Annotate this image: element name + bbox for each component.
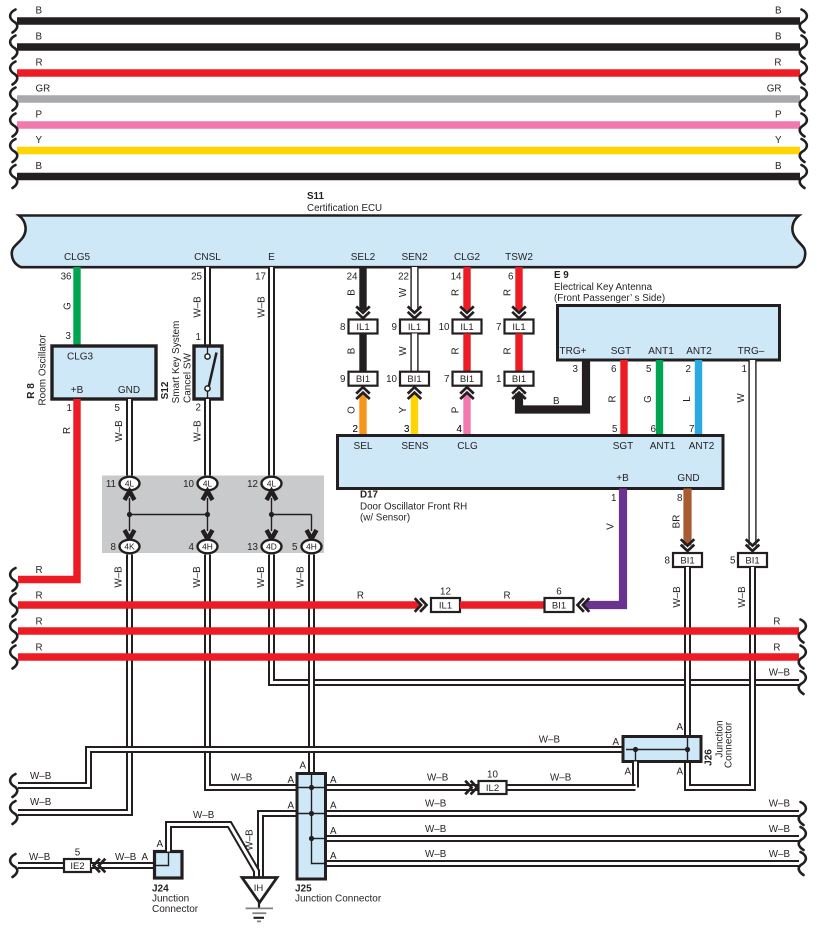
svg-text:ANT2: ANT2 — [689, 441, 715, 452]
svg-text:W–B: W–B — [193, 810, 215, 821]
svg-text:5: 5 — [115, 403, 121, 414]
harness wire B y176 — [10, 161, 807, 188]
svg-text:5: 5 — [730, 556, 736, 567]
J26 top A label — [676, 722, 683, 733]
wire R left edge to IL1 (12) — [10, 591, 426, 617]
J25 top A label — [299, 761, 306, 772]
svg-text:5: 5 — [646, 364, 652, 375]
connector IL1 pin 9 — [392, 320, 429, 334]
svg-text:4H: 4H — [202, 542, 213, 552]
svg-text:10: 10 — [487, 770, 498, 781]
J24 internal wire — [155, 852, 169, 866]
svg-text:Electrical Key Antenna: Electrical Key Antenna — [554, 282, 653, 293]
svg-text:W–B: W–B — [425, 849, 447, 860]
connector BI1 pin 5 — [730, 553, 767, 567]
svg-text:BI1: BI1 — [460, 374, 474, 385]
svg-text:W–B: W–B — [30, 797, 52, 808]
svg-text:1: 1 — [196, 332, 201, 343]
wire W-B 4D to right edge — [256, 555, 806, 695]
svg-text:Junction Connector: Junction Connector — [295, 894, 382, 905]
svg-text:7: 7 — [689, 424, 694, 435]
svg-text:V: V — [606, 523, 617, 530]
svg-text:P: P — [775, 110, 782, 121]
svg-text:4K: 4K — [124, 542, 135, 552]
svg-text:CLG: CLG — [457, 441, 478, 452]
J26 Junction Connector box — [623, 720, 735, 768]
svg-text:9: 9 — [392, 322, 397, 333]
wire R full width y631 — [10, 617, 806, 643]
E9 pin ANT1 (5) — [646, 346, 674, 375]
svg-text:ANT2: ANT2 — [686, 346, 712, 357]
J26 bottom2 A label — [676, 767, 683, 778]
svg-text:11: 11 — [106, 479, 116, 490]
svg-text:W–B: W–B — [114, 566, 125, 588]
svg-text:W–B: W–B — [192, 566, 203, 588]
connector IL1 pin 12 — [431, 587, 460, 613]
svg-text:1: 1 — [496, 374, 501, 385]
D17 pin ANT2 (7) — [689, 424, 715, 452]
svg-text:R: R — [503, 591, 510, 602]
svg-text:4: 4 — [457, 424, 463, 435]
svg-text:W–B: W–B — [427, 773, 449, 784]
D17 pin SGT (5) — [612, 424, 633, 452]
svg-text:BI1: BI1 — [680, 555, 694, 566]
wire W-B J25 row2 to right edge — [326, 799, 806, 826]
harness wire R y73 — [10, 58, 807, 85]
wire R from IL1 to BI1 — [451, 334, 468, 373]
svg-text:R: R — [36, 591, 43, 602]
wire G CLG5 to R8 — [63, 267, 78, 346]
svg-text:IE2: IE2 — [70, 861, 84, 872]
svg-text:IL1: IL1 — [439, 600, 452, 611]
wire W-B 4H(5) to J25 top — [296, 555, 312, 774]
svg-text:A: A — [330, 851, 337, 862]
svg-text:6: 6 — [556, 587, 562, 598]
svg-text:P: P — [36, 110, 43, 121]
svg-text:E 9: E 9 — [554, 270, 569, 281]
wire W-B S12 to 4L junction — [193, 399, 208, 476]
junction connector 4D pin 13 — [247, 530, 281, 553]
svg-text:3: 3 — [573, 364, 579, 375]
svg-text:W–B: W–B — [296, 566, 307, 588]
svg-text:SENS: SENS — [401, 441, 429, 452]
svg-text:W–B: W–B — [737, 586, 748, 608]
svg-text:B: B — [775, 32, 782, 43]
svg-text:W–B: W–B — [193, 296, 204, 318]
wire W-B BI1(8) to J26 top — [672, 567, 688, 737]
svg-text:BI1: BI1 — [512, 374, 526, 385]
svg-text:R: R — [357, 591, 364, 602]
R8 pin 1 (+B) — [67, 403, 72, 414]
junction block (gray) — [102, 476, 324, 554]
svg-text:3: 3 — [66, 331, 72, 342]
harness wire P y125 — [10, 110, 807, 137]
wire R IL1 to BI1 (6) — [460, 591, 545, 606]
S12 pin 2 — [196, 403, 201, 414]
svg-text:1: 1 — [611, 493, 616, 504]
svg-text:5: 5 — [292, 542, 298, 553]
svg-text:8: 8 — [340, 322, 346, 333]
harness wire B y47 — [10, 32, 807, 59]
wire W from IL1 to BI1 — [398, 334, 415, 372]
R8 pin 3 (CLG3) — [66, 331, 72, 342]
svg-text:A: A — [676, 767, 683, 778]
svg-text:8: 8 — [677, 493, 683, 504]
svg-text:W–B: W–B — [539, 735, 561, 746]
junction connector 4H pin 4 — [189, 530, 218, 553]
svg-text:12: 12 — [247, 479, 258, 490]
svg-text:17: 17 — [255, 272, 266, 283]
svg-text:CLG2: CLG2 — [454, 252, 481, 263]
svg-text:1: 1 — [67, 403, 72, 414]
wire R from R8 +B to left edge — [10, 399, 77, 591]
wire R from IL1 to BI1 — [503, 334, 520, 373]
svg-text:R: R — [773, 617, 780, 628]
svg-text:W–B: W–B — [231, 773, 253, 784]
svg-text:TRG+: TRG+ — [560, 346, 587, 357]
svg-text:B: B — [347, 289, 358, 296]
svg-text:BR: BR — [672, 515, 683, 529]
svg-text:8: 8 — [111, 542, 117, 553]
svg-text:SGT: SGT — [613, 441, 634, 452]
chevron into BI1 pin 5 — [746, 539, 760, 551]
svg-text:B: B — [553, 396, 560, 407]
svg-text:IL1: IL1 — [460, 322, 473, 333]
wire W from S11 to IL1 — [398, 267, 421, 318]
svg-text:W–B: W–B — [425, 824, 447, 835]
D17 pin GND (8) — [677, 473, 700, 504]
wire W-B 4K to left edge (bottom) — [10, 555, 129, 825]
svg-text:W–B: W–B — [30, 771, 52, 782]
connector IE2 pin 5 — [64, 848, 91, 873]
S12 pin 1 — [196, 332, 201, 343]
svg-text:P: P — [451, 406, 462, 413]
svg-text:Connector: Connector — [152, 904, 199, 915]
wire W-B left edge to J26 — [10, 735, 622, 798]
svg-text:A: A — [612, 737, 619, 748]
svg-text:G: G — [643, 395, 654, 403]
svg-text:5: 5 — [612, 424, 618, 435]
svg-text:W–B: W–B — [257, 296, 268, 318]
connector IL1 pin 10 — [439, 320, 482, 334]
svg-text:+B: +B — [616, 473, 629, 484]
wire W-B J25 row2 left to IH ground — [245, 801, 298, 878]
svg-text:A: A — [299, 761, 306, 772]
svg-text:TSW2: TSW2 — [505, 252, 533, 263]
svg-text:A: A — [287, 775, 294, 786]
svg-text:G: G — [63, 302, 74, 310]
svg-text:S11: S11 — [307, 191, 324, 202]
svg-text:CLG3: CLG3 — [67, 352, 94, 363]
svg-text:14: 14 — [451, 272, 462, 283]
svg-text:10: 10 — [439, 322, 450, 333]
svg-text:O: O — [347, 406, 358, 414]
wire W-B R8 GND to 4L junction — [114, 399, 130, 476]
svg-text:Y: Y — [36, 135, 43, 146]
S11 pin TSW2 (6) — [505, 252, 533, 283]
svg-text:6: 6 — [508, 272, 514, 283]
svg-text:D17: D17 — [360, 490, 379, 501]
wire W-B J25 row4 to right edge — [326, 849, 806, 875]
svg-text:IH: IH — [254, 883, 264, 894]
wire B from S11 to IL1 — [347, 267, 370, 318]
wire O from BI1 to D17 — [347, 387, 370, 435]
S11 pin CLG2 (14) — [451, 252, 481, 283]
svg-text:R: R — [36, 617, 43, 628]
wire W E9 TRG- down to BI1 — [736, 360, 753, 546]
wire R full width y657 — [10, 643, 806, 669]
connector IL1 pin 7 — [496, 320, 533, 334]
svg-text:R: R — [36, 643, 43, 654]
svg-text:R: R — [451, 347, 462, 354]
wire P from BI1 to D17 — [451, 387, 474, 435]
svg-text:7: 7 — [444, 374, 449, 385]
svg-text:A: A — [287, 801, 294, 812]
svg-text:ANT1: ANT1 — [648, 346, 674, 357]
svg-text:B: B — [347, 347, 358, 354]
S12 Smart Key System Cancel SW box — [160, 321, 222, 404]
svg-text:BI1: BI1 — [552, 600, 566, 611]
svg-text:BI1: BI1 — [356, 374, 370, 385]
ground IH symbol — [242, 878, 277, 922]
S11 pin SEL2 (24) — [347, 252, 376, 283]
svg-text:Certification ECU: Certification ECU — [307, 203, 382, 214]
svg-text:4D: 4D — [266, 542, 277, 552]
svg-text:W: W — [736, 393, 747, 403]
svg-text:SGT: SGT — [611, 346, 632, 357]
D17 pin SEL (2) — [353, 424, 373, 452]
junction internal wire x207 — [205, 498, 210, 531]
svg-text:GR: GR — [767, 84, 782, 95]
svg-text:R: R — [773, 643, 780, 654]
svg-text:SEL: SEL — [354, 441, 373, 452]
connector BI1 pin 10 — [386, 372, 429, 386]
svg-text:R: R — [503, 289, 514, 296]
wire W-B 4H to J25 row1 — [192, 555, 297, 788]
svg-text:Y: Y — [398, 406, 409, 413]
svg-text:A: A — [141, 852, 148, 863]
svg-text:W–B: W–B — [769, 799, 791, 810]
connector IL2 pin 10 — [479, 770, 507, 795]
junction connector 4H pin 5 — [292, 530, 321, 553]
junction connector 4K pin 8 — [111, 530, 140, 553]
svg-text:B: B — [775, 6, 782, 17]
connector BI1 pin 6 — [545, 587, 574, 613]
svg-text:ANT1: ANT1 — [650, 441, 676, 452]
svg-text:Room Oscillator: Room Oscillator — [38, 334, 49, 406]
D17 pin +B (1) — [611, 473, 629, 504]
harness wire B y21 — [10, 6, 807, 33]
svg-text:W–B: W–B — [193, 420, 204, 442]
svg-text:R: R — [774, 58, 781, 69]
svg-text:10: 10 — [183, 479, 194, 490]
svg-text:IL1: IL1 — [408, 322, 421, 333]
S11 pin CNSL (25) — [191, 252, 221, 283]
E9 pin TRG+ (3) — [560, 346, 587, 375]
svg-text:4: 4 — [189, 542, 195, 553]
S11 pin CLG5 (36) — [61, 252, 91, 283]
svg-text:4H: 4H — [306, 542, 317, 552]
svg-text:22: 22 — [398, 272, 409, 283]
wire W-B J24 top to IH ground — [156, 810, 256, 877]
E9 pin ANT2 (2) — [686, 346, 713, 375]
svg-text:Cancel SW: Cancel SW — [183, 352, 194, 403]
svg-text:W–B: W–B — [769, 849, 791, 860]
svg-text:+B: +B — [71, 385, 84, 396]
svg-text:A: A — [156, 839, 163, 850]
wire BR D17 GND to BI1 (8) — [672, 489, 695, 552]
wire V D17 +B to BI1 (6) — [578, 489, 624, 612]
E9 pin TRG– (1) — [738, 346, 765, 375]
svg-text:W–B: W–B — [256, 566, 267, 588]
junction connector 4L pin 10 — [183, 477, 217, 500]
svg-text:5: 5 — [75, 848, 81, 859]
svg-text:6: 6 — [651, 424, 657, 435]
wire R from S11 to IL1 — [503, 267, 526, 318]
svg-text:W–B: W–B — [769, 668, 791, 679]
svg-text:GND: GND — [677, 473, 699, 484]
svg-text:8: 8 — [665, 556, 671, 567]
S11 pin E (17) — [255, 252, 275, 283]
wire W-B J25 row1 to IL2 to J26 — [326, 773, 636, 795]
harness wire Y y150 — [10, 135, 807, 162]
svg-text:36: 36 — [61, 272, 72, 283]
svg-text:IL1: IL1 — [356, 322, 369, 333]
harness wire GR y99 — [10, 84, 807, 111]
connector BI1 pin 8 — [665, 553, 702, 567]
svg-text:2: 2 — [686, 364, 691, 375]
wire W-B J25 row3 to right edge — [326, 824, 806, 850]
svg-text:R: R — [451, 289, 462, 296]
svg-text:R: R — [36, 58, 43, 69]
svg-text:CLG5: CLG5 — [64, 252, 91, 263]
junction connector 4L pin 12 — [247, 477, 281, 500]
svg-text:IL2: IL2 — [486, 783, 499, 794]
svg-text:B: B — [775, 161, 782, 172]
svg-text:IL1: IL1 — [512, 322, 525, 333]
R8 Room Oscillator box — [26, 334, 156, 406]
svg-text:10: 10 — [386, 374, 397, 385]
D17 pin CLG (4) — [457, 424, 478, 452]
wire W-B CNSL to S12 — [193, 267, 208, 346]
wire B from IL1 to BI1 — [347, 334, 364, 373]
J24 Junction Connector box — [152, 852, 199, 915]
svg-text:W–B: W–B — [115, 852, 137, 863]
svg-text:W–B: W–B — [769, 824, 791, 835]
connector BI1 pin 7 — [444, 372, 481, 386]
svg-text:CNSL: CNSL — [194, 252, 221, 263]
svg-text:(w/ Sensor): (w/ Sensor) — [360, 513, 410, 524]
D17 Door Oscillator Front RH box — [338, 436, 724, 524]
svg-text:W: W — [398, 346, 409, 356]
svg-text:Y: Y — [775, 135, 782, 146]
wire L E9 ANT2 to D17 — [682, 360, 699, 436]
svg-text:SEN2: SEN2 — [401, 252, 428, 263]
wire B from E9 TRG+ to BI1 pin 1 — [512, 360, 586, 410]
svg-text:J26: J26 — [704, 749, 715, 766]
svg-text:B: B — [36, 161, 43, 172]
wire R from S11 to IL1 — [451, 267, 474, 318]
svg-text:BI1: BI1 — [745, 555, 759, 566]
connector BI1 pin 9 — [340, 372, 377, 386]
svg-text:24: 24 — [347, 272, 358, 283]
svg-text:A: A — [330, 826, 337, 837]
svg-text:3: 3 — [404, 424, 410, 435]
junction internal wire x271 — [269, 498, 274, 531]
svg-text:A: A — [330, 801, 337, 812]
E9 Electrical Key Antenna box — [554, 270, 780, 360]
connector IL1 pin 8 — [340, 320, 377, 334]
svg-text:A: A — [624, 767, 631, 778]
svg-text:6: 6 — [611, 364, 617, 375]
svg-text:R: R — [503, 347, 514, 354]
svg-text:9: 9 — [340, 374, 345, 385]
svg-text:(Front Passenger’ s Side): (Front Passenger’ s Side) — [554, 293, 665, 304]
svg-text:R 8: R 8 — [26, 383, 37, 399]
svg-text:BI1: BI1 — [407, 374, 421, 385]
svg-text:7: 7 — [496, 322, 501, 333]
junction bus col3-col4 — [272, 515, 312, 532]
D17 pin SENS (3) — [401, 424, 429, 452]
svg-text:2: 2 — [353, 424, 358, 435]
svg-text:W–B: W–B — [425, 799, 447, 810]
E9 pin SGT (6) — [611, 346, 632, 375]
svg-text:W: W — [398, 287, 409, 297]
svg-text:12: 12 — [440, 587, 451, 598]
svg-text:Smart Key System: Smart Key System — [171, 321, 182, 404]
svg-text:25: 25 — [191, 272, 202, 283]
svg-text:L: L — [682, 396, 693, 402]
S11 pin SEN2 (22) — [398, 252, 428, 283]
wire W-B BI1(5) down to J26 loop — [688, 567, 753, 788]
connector BI1 pin 1 — [496, 372, 533, 386]
wire R E9 SGT to D17 — [608, 360, 625, 436]
wire G E9 ANT1 to D17 — [643, 360, 660, 436]
junction connector 4L pin 11 — [106, 477, 140, 500]
wire W-B IE2 to J24 — [91, 852, 154, 872]
svg-text:1: 1 — [742, 364, 747, 375]
svg-text:A: A — [330, 775, 337, 786]
svg-text:W–B: W–B — [550, 773, 572, 784]
wire W-B J26 bottom1 to IL2 line — [624, 762, 635, 788]
J25 Junction Connector box — [295, 774, 382, 905]
svg-text:R: R — [36, 565, 43, 576]
svg-text:GND: GND — [118, 385, 140, 396]
svg-text:B: B — [36, 32, 43, 43]
svg-text:Connector: Connector — [724, 721, 735, 768]
svg-text:R: R — [62, 427, 73, 434]
junction internal wire x129 — [127, 498, 132, 531]
svg-text:2: 2 — [196, 403, 201, 414]
wire W-B E to 4L junction — [257, 267, 272, 476]
ECU S11 Certification ECU — [12, 191, 806, 267]
svg-text:W–B: W–B — [672, 586, 683, 608]
svg-text:W–B: W–B — [29, 852, 51, 863]
svg-text:SEL2: SEL2 — [351, 252, 376, 263]
svg-text:13: 13 — [247, 542, 258, 553]
junction bus col1-col2 — [130, 514, 208, 516]
svg-text:B: B — [36, 6, 43, 17]
wire W-B left edge to IE2 — [10, 852, 64, 877]
svg-text:GR: GR — [36, 84, 51, 95]
svg-text:E: E — [268, 252, 275, 263]
svg-text:W–B: W–B — [114, 420, 125, 442]
wire Y from BI1 to D17 — [398, 387, 421, 435]
D17 pin ANT1 (6) — [650, 424, 676, 452]
svg-text:R: R — [608, 395, 619, 402]
svg-text:Door Oscillator Front RH: Door Oscillator Front RH — [360, 502, 467, 513]
R8 pin 5 (GND) — [115, 403, 121, 414]
